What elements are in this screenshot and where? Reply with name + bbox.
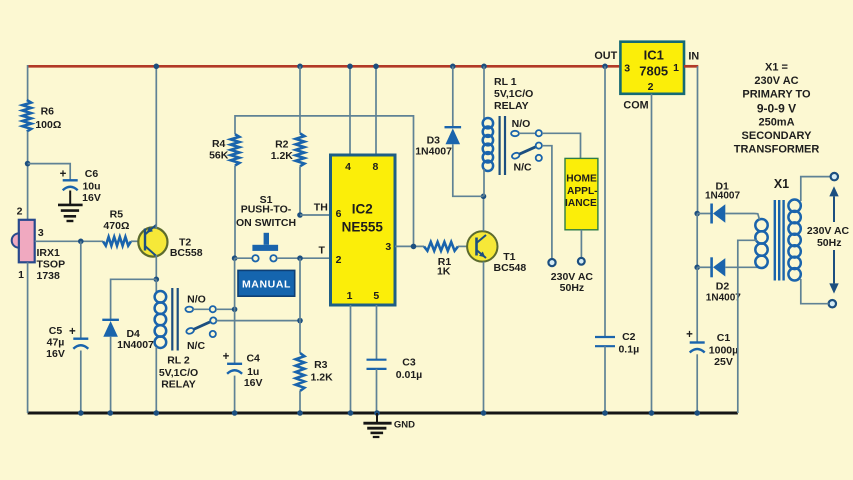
mains terminal bottom [829, 300, 836, 307]
wire appliance to mains terminal [580, 230, 582, 258]
svg-text:TRANSFORMER: TRANSFORMER [734, 143, 820, 155]
ground junction C1 [694, 410, 700, 416]
svg-text:SECONDARY: SECONDARY [742, 130, 813, 142]
svg-text:IRX1: IRX1 [37, 247, 61, 259]
ground junction C4 [232, 410, 238, 416]
wire secondary centre tap to ground rail [738, 240, 757, 413]
svg-text:16V: 16V [46, 348, 65, 360]
ground junction pin1 [348, 410, 354, 416]
wire pin 1 to ground rail [350, 305, 352, 413]
svg-text:X1: X1 [774, 177, 789, 191]
svg-text:5V,1C/O: 5V,1C/O [159, 367, 198, 379]
wire C3 to ground rail [376, 369, 378, 413]
wire primary top to terminal [801, 177, 831, 201]
ground junction R3 [297, 410, 303, 416]
wire R2 bottom to TH node [299, 166, 301, 215]
wire node B down to C5 [80, 241, 82, 338]
svg-text:1: 1 [347, 290, 353, 302]
svg-text:1u: 1u [247, 366, 259, 378]
relay RL1 coil [483, 118, 493, 128]
wire rail corner to R6 top [27, 65, 29, 100]
svg-text:47µ: 47µ [47, 337, 65, 349]
svg-text:BC548: BC548 [494, 262, 527, 274]
svg-text:C4: C4 [246, 353, 260, 365]
svg-text:IC2: IC2 [352, 201, 373, 216]
svg-text:10u: 10u [82, 181, 100, 193]
svg-text:8: 8 [372, 161, 378, 173]
relay RL2 coil [155, 291, 167, 303]
wire N/O node down to C4 [234, 309, 236, 364]
svg-text:GND: GND [394, 419, 415, 430]
wire R1 to T1 base [458, 245, 468, 247]
svg-text:PUSH-TO-: PUSH-TO- [241, 203, 292, 215]
wire S1 node down to N/O node [234, 258, 236, 309]
svg-text:ON SWITCH: ON SWITCH [236, 217, 296, 229]
wire S1 left lead [235, 257, 253, 259]
wire primary bottom to terminal [801, 279, 829, 304]
svg-text:2: 2 [17, 206, 23, 218]
junction RL1 rail [481, 64, 487, 70]
node B junction [78, 239, 84, 245]
node A junction [25, 161, 31, 167]
capacitor C4 [227, 363, 242, 365]
svg-text:2: 2 [648, 81, 654, 93]
wire lever node to R3 [299, 321, 301, 353]
wire pin 5 to C3 [376, 305, 378, 360]
svg-text:MANUAL: MANUAL [242, 278, 291, 290]
ground junction RL2 [154, 410, 160, 416]
wire R6 bottom to node A [27, 132, 29, 220]
svg-text:1: 1 [673, 62, 679, 74]
wire D2 anode to secondary bottom [725, 266, 757, 268]
svg-text:IN: IN [688, 51, 699, 63]
svg-text:16V: 16V [82, 192, 101, 204]
diode D2 1N4007 [710, 257, 713, 277]
svg-text:250mA: 250mA [758, 117, 794, 129]
svg-text:230V AC: 230V AC [807, 225, 850, 237]
svg-text:+: + [69, 326, 76, 338]
resistor R5 [103, 237, 131, 246]
MANUAL label box [238, 270, 295, 296]
svg-text:BC558: BC558 [170, 247, 203, 259]
ground rail (0V) [28, 412, 738, 415]
ground symbol at C6 [69, 191, 71, 205]
svg-text:1000µ: 1000µ [709, 345, 738, 357]
RL2 N/C contact [210, 331, 216, 337]
svg-text:+: + [60, 169, 67, 181]
wire D4 to ground rail [110, 337, 112, 413]
svg-text:C3: C3 [402, 357, 416, 369]
wire +9V to RL1 coil [483, 66, 485, 121]
svg-text:C5: C5 [49, 325, 63, 337]
svg-text:T: T [318, 244, 325, 256]
svg-text:0.1µ: 0.1µ [618, 344, 639, 356]
home appliance box [565, 158, 598, 229]
svg-text:1.2K: 1.2K [271, 150, 294, 162]
wire +9V to pin 8 [375, 66, 377, 155]
svg-text:7805: 7805 [639, 64, 668, 79]
svg-text:RL 2: RL 2 [167, 354, 190, 366]
+9V power rail (red) [28, 65, 621, 68]
diode D3 1N4007 [445, 126, 462, 128]
transformer X1 primary winding [788, 200, 800, 212]
ground junction C2 [602, 410, 608, 416]
resistor R6 [22, 100, 31, 132]
voltage regulator IC1 7805 [620, 42, 684, 94]
svg-text:RELAY: RELAY [494, 100, 529, 112]
transformer X1 core [774, 200, 776, 281]
svg-text:1K: 1K [437, 265, 451, 277]
mains terminal left [548, 259, 555, 266]
wire D1 cathode lead [697, 213, 710, 215]
svg-text:470Ω: 470Ω [103, 220, 129, 232]
svg-text:50Hz: 50Hz [560, 282, 585, 294]
node E junction (D1) [694, 211, 700, 217]
svg-text:D2: D2 [716, 280, 730, 292]
switch S1 plunger [264, 233, 269, 245]
svg-text:9-0-9 V: 9-0-9 V [757, 101, 796, 115]
wire C2 to ground rail [604, 346, 606, 413]
svg-text:1.2K: 1.2K [311, 372, 334, 384]
wire rectifier node down to C1 [696, 267, 698, 342]
svg-text:1N4007: 1N4007 [117, 339, 154, 351]
resistor R1 [424, 242, 458, 251]
capacitor C5 [73, 338, 88, 340]
relay RL1 core [499, 116, 501, 175]
wire TSOP pin1 to ground rail [27, 262, 29, 413]
wire R4 bottom to S1 node [234, 166, 236, 259]
svg-text:5: 5 [373, 290, 379, 302]
relay RL2 core [171, 288, 173, 351]
svg-text:16V: 16V [244, 377, 263, 389]
svg-text:RELAY: RELAY [161, 379, 196, 391]
wire IN pin (red stub) [684, 65, 698, 68]
svg-text:HOME: HOME [566, 173, 597, 184]
wire rectifier node down to D2 [696, 214, 698, 268]
junction +9V to R2 [297, 64, 303, 70]
wire +9V down to D3 [452, 66, 454, 127]
capacitor C2 [595, 336, 615, 338]
node F junction (D2) [694, 265, 700, 271]
svg-text:R5: R5 [110, 208, 124, 220]
svg-text:1: 1 [18, 269, 24, 281]
capacitor C1 [690, 341, 705, 343]
arrow down [833, 250, 835, 283]
junction TH node [297, 212, 303, 218]
RL1 movable lever [511, 152, 520, 160]
wire C4 to ground rail [234, 376, 236, 413]
svg-text:C2: C2 [622, 331, 636, 343]
svg-text:1N4007: 1N4007 [705, 191, 740, 202]
wire IN down to rectifier [697, 66, 699, 213]
node D junction (T1 collector) [481, 194, 487, 200]
junction pin8 rail [373, 64, 379, 70]
wire node A to C6 [28, 164, 71, 181]
svg-text:230V AC: 230V AC [754, 75, 798, 87]
svg-text:N/O: N/O [512, 118, 531, 130]
svg-text:56K: 56K [209, 150, 229, 162]
ground junction T1 [481, 410, 487, 416]
mains terminal top [831, 173, 838, 180]
op-amp timer IC2 NE555 [331, 155, 396, 305]
wire D1 anode to secondary top [725, 213, 754, 215]
junction T2 emitter rail [154, 64, 160, 70]
diode D4 1N4007 [102, 319, 119, 321]
svg-text:T1: T1 [503, 251, 515, 263]
svg-text:3: 3 [624, 62, 630, 74]
wire RL2 coil to ground rail [155, 347, 157, 413]
svg-text:X1 =: X1 = [765, 61, 788, 73]
wire +9V to pin 4 [349, 66, 351, 155]
RL1 N/O contact [511, 131, 519, 136]
svg-text:1N4007: 1N4007 [706, 292, 741, 303]
junction pin4 rail [347, 64, 353, 70]
wire RL2 N/O to vertical [216, 308, 235, 310]
svg-text:1738: 1738 [37, 270, 61, 282]
wire TSOP pin3 to R5 [35, 240, 103, 242]
ground symbol GND [376, 413, 378, 422]
wire RL1 N/O to appliance [542, 133, 581, 158]
junction S1 right (pin2 node) [297, 255, 303, 261]
wire T2 emitter to +9V rail [155, 66, 157, 229]
wire T1 collector up [483, 196, 485, 231]
RL2 movable lever [186, 327, 195, 335]
wire C5 to ground rail [80, 351, 82, 414]
RL2 N/O contact [185, 307, 193, 312]
junction C2 rail [602, 64, 608, 70]
svg-text:N/O: N/O [187, 294, 206, 306]
svg-text:C6: C6 [85, 168, 99, 180]
resistor R4 [231, 134, 240, 165]
junction RL2 lever node [297, 318, 303, 324]
svg-text:RL 1: RL 1 [494, 76, 517, 88]
ground junction GND node [374, 410, 380, 416]
svg-text:6: 6 [336, 208, 342, 220]
svg-text:R6: R6 [41, 106, 55, 118]
svg-text:0.01µ: 0.01µ [396, 369, 423, 381]
wire D2 cathode lead [697, 266, 710, 268]
svg-text:+: + [686, 329, 693, 341]
diode D1 1N4007 [710, 204, 713, 224]
resistor R2 [296, 133, 305, 166]
svg-text:OUT: OUT [594, 50, 617, 62]
svg-text:25V: 25V [714, 356, 733, 368]
capacitor C3 [367, 359, 387, 361]
svg-text:TSOP: TSOP [37, 259, 66, 271]
svg-text:IC1: IC1 [644, 47, 664, 62]
S1 right contact [270, 255, 276, 261]
junction D3 rail [450, 64, 456, 70]
svg-text:R3: R3 [314, 359, 328, 371]
wire S1 right lead [277, 257, 331, 259]
ground junction C5 [78, 410, 84, 416]
wire +9V down to R2 [299, 66, 301, 133]
capacitor C6 [63, 179, 78, 181]
ground junction COM [649, 410, 655, 416]
wire R5 to T2 base [131, 240, 139, 242]
svg-text:PRIMARY TO: PRIMARY TO [742, 88, 811, 100]
transistor T1 BC548 [467, 231, 497, 261]
wire T1 emitter to ground rail [483, 262, 485, 413]
junction RL2 N/O [232, 307, 238, 313]
svg-text:3: 3 [385, 241, 391, 253]
wire D3 to node D [453, 144, 484, 196]
svg-text:50Hz: 50Hz [817, 237, 842, 249]
wire +9V down to C2 [604, 66, 606, 337]
svg-text:NE555: NE555 [342, 219, 384, 234]
svg-text:R4: R4 [212, 138, 226, 150]
svg-text:1N4007: 1N4007 [415, 146, 452, 158]
svg-text:APPL-: APPL- [567, 186, 598, 197]
svg-text:C1: C1 [717, 332, 731, 344]
svg-text:100Ω: 100Ω [35, 119, 61, 131]
node C junction (T2 collector) [154, 277, 160, 283]
svg-text:4: 4 [345, 161, 351, 173]
wire TH node to pin6 [300, 214, 331, 216]
wire T2 collector down [155, 255, 157, 279]
S1 left contact [252, 255, 258, 261]
wire C1 to ground rail [696, 354, 698, 413]
mains terminal right [578, 258, 585, 265]
wire R3 to ground rail [299, 391, 301, 413]
wire RL1 lever to mains terminal [542, 146, 552, 259]
wire node C to RL2 coil [155, 279, 157, 292]
transistor T2 BC558 [138, 227, 167, 256]
wire RL2 lever to vertical [216, 320, 300, 322]
resistor R3 [296, 353, 305, 391]
svg-text:IANCE: IANCE [565, 198, 597, 209]
wire R4 top net to pin3 net [235, 116, 414, 247]
wire RL1 coil to node D [483, 169, 485, 196]
svg-text:R2: R2 [275, 139, 289, 151]
svg-text:2: 2 [336, 254, 342, 266]
transformer X1 secondary winding [755, 219, 767, 231]
junction S1 left [232, 255, 238, 261]
wire pin 3 to R1 [395, 245, 424, 247]
arrow up [829, 186, 838, 196]
svg-text:N/C: N/C [187, 340, 206, 352]
svg-text:N/C: N/C [514, 161, 533, 173]
svg-text:3: 3 [38, 227, 44, 239]
svg-text:TH: TH [314, 201, 328, 213]
ground junction D4 [108, 410, 114, 416]
wire pin2 node down to lever node [299, 258, 301, 320]
IR receiver IRX1 TSOP1738 [19, 220, 35, 262]
svg-text:COM: COM [623, 99, 648, 111]
junction pin3 node [411, 244, 417, 250]
svg-text:+: + [223, 351, 230, 363]
wire node C to D4 [111, 279, 157, 320]
RL1 N/C contact [536, 155, 542, 161]
svg-text:5V,1C/O: 5V,1C/O [494, 88, 533, 100]
wire COM pin 2 to ground rail [651, 94, 653, 413]
